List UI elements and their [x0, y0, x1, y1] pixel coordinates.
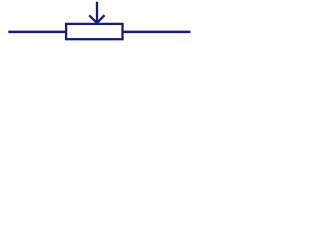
wire right terminal	[124, 31, 191, 34]
potentiometer body	[66, 24, 122, 39]
wiper arrow	[89, 2, 104, 23]
wire left terminal	[8, 31, 66, 34]
